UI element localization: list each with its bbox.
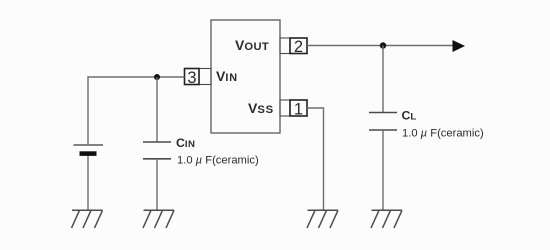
svg-text:1.0 µ F(ceramic): 1.0 µ F(ceramic) — [402, 128, 484, 140]
op-amp U1 (regulator IC body) — [211, 20, 280, 133]
svg-text:CL: CL — [402, 109, 417, 123]
pin 3 box — [185, 69, 212, 88]
svg-text:3: 3 — [187, 69, 196, 87]
ground (VSS) — [307, 210, 338, 228]
capacitor CL — [369, 113, 397, 131]
wire: battery to ground — [87, 156, 89, 210]
pin 1 box — [280, 100, 307, 119]
svg-text:1.0 µ F(ceramic): 1.0 µ F(ceramic) — [177, 155, 259, 167]
wire: CL to ground — [382, 130, 384, 210]
wire: junction down to CIN — [156, 77, 158, 142]
battery B1 — [74, 145, 104, 156]
wire: input line from battery to pin 3 — [88, 77, 185, 145]
svg-text:CIN: CIN — [176, 136, 195, 150]
pin 2 box — [280, 38, 307, 56]
wire: junction down to CL — [382, 46, 384, 113]
capacitor CIN — [143, 142, 171, 159]
node: junction on VOUT line — [380, 42, 386, 48]
wire: CIN to ground — [156, 159, 158, 210]
ground (CL) — [371, 210, 402, 228]
node: junction on input line — [154, 74, 160, 80]
ground (battery) — [72, 210, 103, 228]
wire: VSS pin to ground — [307, 108, 324, 210]
svg-text:1: 1 — [294, 101, 303, 119]
wire: VOUT output line — [307, 45, 453, 47]
ground (CIN) — [143, 210, 174, 228]
svg-text:2: 2 — [294, 38, 303, 56]
output arrow — [453, 40, 466, 52]
